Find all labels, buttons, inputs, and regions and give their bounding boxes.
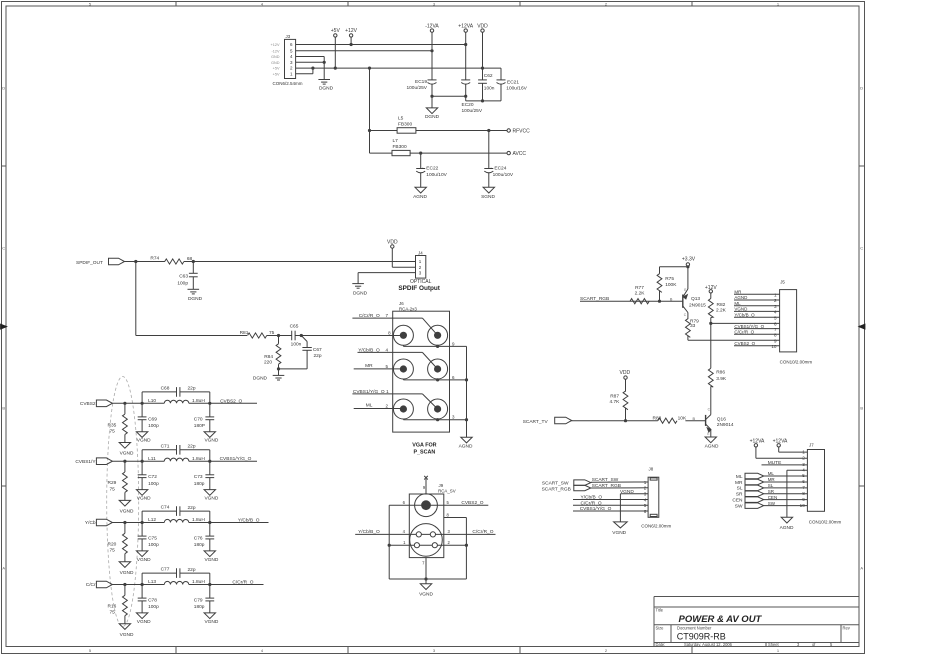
wire R75 bottom	[659, 291, 661, 302]
label J3	[286, 34, 291, 39]
junction	[141, 460, 144, 463]
title block divider size	[670, 625, 672, 643]
svg-text:100u/16V: 100u/16V	[506, 85, 527, 91]
svg-text:R81: R81	[240, 330, 249, 336]
sheet title POWER & AV OUT	[679, 614, 763, 625]
port tag SR	[745, 491, 764, 497]
svg-text:L7: L7	[393, 138, 399, 144]
net label CEN (left)	[732, 497, 743, 503]
power VDD	[620, 370, 631, 379]
wire SPDIF branch down	[135, 262, 137, 336]
svg-text:CVBS1/Y: CVBS1/Y	[75, 459, 96, 465]
wire node to L	[142, 584, 164, 586]
svg-text:R86: R86	[716, 370, 725, 376]
svg-text:C/Cr/R_O: C/Cr/R_O	[472, 529, 493, 535]
svg-text:VGND: VGND	[120, 509, 134, 515]
svg-text:Saturday, August 12, 2006: Saturday, August 12, 2006	[684, 642, 733, 647]
wire SW to J7 pin10	[764, 505, 808, 507]
junction	[141, 521, 144, 524]
grouping ellipse (dashed)	[107, 377, 139, 627]
J8 pin number 2	[644, 486, 647, 491]
border tick top	[519, 2, 521, 7]
connector J7	[807, 450, 824, 512]
svg-text:ML: ML	[768, 471, 775, 476]
svg-text:+12V: +12V	[705, 285, 717, 291]
net label Y/Cb/B_O	[358, 529, 380, 535]
wire +12VA vertical	[465, 32, 467, 80]
svg-text:180p: 180p	[194, 604, 205, 610]
svg-text:100p: 100p	[177, 281, 188, 287]
svg-text:Title: Title	[656, 608, 664, 613]
J9 pin number 5	[447, 500, 450, 505]
svg-text:CVBS1/Y/G_O: CVBS1/Y/G_O	[220, 456, 252, 462]
svg-text:Rev: Rev	[843, 626, 851, 631]
zone label bottom	[777, 648, 780, 653]
wire J4 pin3 to DGND	[358, 273, 415, 284]
net label C/Cr/R_O	[232, 580, 253, 586]
port tag SCART_RGB	[574, 485, 591, 491]
wire EC20 bottom	[465, 84, 467, 101]
inductor L12	[148, 517, 205, 523]
svg-text:2.2K: 2.2K	[716, 308, 727, 314]
wire node to L	[142, 522, 164, 524]
svg-text:CVBS2: CVBS2	[80, 401, 96, 407]
inductor L13	[148, 579, 205, 585]
resistor R84	[264, 344, 281, 366]
J4 pin number 1	[419, 259, 422, 264]
net label MR	[768, 477, 776, 482]
wire ML to J7 pin5	[764, 475, 808, 477]
svg-text:+12V: +12V	[271, 43, 280, 47]
svg-text:R35: R35	[107, 422, 116, 428]
svg-text:VGND: VGND	[204, 619, 218, 625]
net label AGND	[734, 295, 748, 300]
junction	[419, 152, 422, 155]
label P_SCAN	[413, 449, 435, 455]
capacitor EC21	[497, 79, 528, 91]
net label ML	[366, 403, 373, 409]
svg-text:VGND: VGND	[137, 438, 151, 444]
net label CVBS1/Y/G_O	[220, 456, 252, 462]
net label Y/Cb/B_O	[358, 347, 380, 353]
J7 pin number 6	[802, 479, 805, 484]
resistor R29	[107, 472, 127, 492]
net label SPDIF_OUT	[76, 260, 103, 266]
capacitor C78	[138, 598, 159, 611]
wire C down	[141, 523, 143, 551]
wire +5V branch vertical	[369, 68, 371, 153]
capacitor EC22	[416, 165, 447, 178]
junction	[300, 334, 303, 337]
inductor L10	[148, 398, 205, 404]
J3 pin number 4	[290, 54, 293, 59]
svg-text:DGND: DGND	[425, 114, 440, 120]
ground VGND	[204, 551, 219, 563]
svg-text:2N9015: 2N9015	[689, 302, 706, 308]
J3 pin name GND	[271, 61, 280, 65]
net label CVBS1/Y/G_O	[734, 324, 764, 329]
svg-text:C71: C71	[161, 443, 170, 449]
svg-text:22p: 22p	[187, 386, 195, 392]
junction	[709, 322, 712, 325]
svg-text:+12V: +12V	[345, 28, 357, 34]
connector J3	[285, 39, 296, 78]
svg-text:VGND: VGND	[120, 632, 134, 638]
svg-text:SPDIF_OUT: SPDIF_OUT	[76, 260, 103, 266]
svg-text:R29: R29	[107, 480, 116, 486]
net label Y/Cb/B_O	[238, 518, 260, 524]
inductor L11	[148, 456, 205, 462]
ground AGND	[459, 437, 473, 449]
capacitor EC24	[484, 165, 514, 178]
wire L to out	[189, 402, 210, 404]
zone label top	[261, 1, 264, 6]
svg-text:2: 2	[774, 298, 777, 303]
svg-text:AGND: AGND	[734, 295, 748, 300]
wire C63	[192, 262, 194, 290]
ground VGND	[136, 613, 151, 625]
resistor R75	[657, 274, 677, 293]
wire J5 pin 5	[734, 316, 780, 318]
svg-text:EC21: EC21	[507, 79, 519, 85]
J9 pin number 7	[422, 561, 425, 566]
label CON10/2.00mm	[780, 359, 813, 364]
resistor R16	[107, 595, 127, 615]
wire C65 to C67 diagonal	[301, 336, 307, 348]
svg-text:+5V: +5V	[273, 67, 280, 71]
J3 pin name +12V	[271, 43, 280, 47]
label CON6/2.54mm	[273, 81, 303, 86]
power +12V	[345, 28, 357, 37]
border tick top	[691, 2, 693, 7]
svg-text:C68: C68	[161, 386, 170, 392]
port tag CVBS2	[96, 400, 112, 407]
wire J6 shield row bottom	[403, 418, 466, 421]
J6 RCA jack	[428, 359, 448, 379]
wire L to out	[189, 460, 210, 462]
power +3.3V	[682, 257, 696, 266]
label RCA-2x3	[399, 306, 417, 311]
svg-text:EC24: EC24	[494, 165, 506, 171]
wire J5 pin 3	[734, 305, 780, 307]
wire input	[112, 522, 142, 524]
svg-text:Y/Cb/B_O: Y/Cb/B_O	[734, 312, 755, 317]
svg-text:75: 75	[109, 548, 115, 554]
svg-text:SCART_TV: SCART_TV	[523, 419, 549, 425]
capacitor C74	[161, 505, 196, 516]
svg-text:75: 75	[109, 429, 115, 435]
wire R82 bottom	[710, 318, 712, 369]
svg-text:100u/10V: 100u/10V	[426, 172, 447, 178]
junction	[436, 378, 439, 381]
svg-text:R75: R75	[665, 276, 674, 282]
ground DGND	[253, 375, 284, 381]
J7 pin number 8	[802, 491, 805, 496]
svg-text:CVBS2_O: CVBS2_O	[461, 500, 483, 506]
ground VGND	[119, 500, 134, 514]
svg-text:R87: R87	[610, 393, 619, 399]
junction	[430, 95, 433, 98]
ground DGND	[352, 284, 367, 297]
net label Y/Cb/B_O	[734, 312, 755, 317]
svg-text:8: 8	[774, 333, 777, 338]
ground DGND	[425, 108, 440, 120]
port tag SL	[745, 485, 764, 491]
junction	[141, 402, 144, 405]
svg-text:C79: C79	[194, 598, 203, 604]
svg-text:DGND: DGND	[188, 296, 203, 302]
net label SR	[768, 489, 775, 494]
J6 pin number 3	[452, 415, 455, 420]
border marker arrow right	[859, 324, 865, 329]
junction	[436, 345, 439, 348]
wire J3 pin5 -12V rail	[296, 50, 432, 52]
svg-text:R82: R82	[717, 302, 726, 308]
wire MUTE to J7 pin3	[762, 464, 808, 466]
svg-text:J3: J3	[286, 34, 291, 39]
J4 pin number 2	[419, 265, 422, 270]
svg-text:C62: C62	[484, 73, 493, 79]
svg-text:C/Cr/R_O: C/Cr/R_O	[734, 330, 754, 335]
connector J8	[648, 477, 659, 517]
wire output	[210, 402, 257, 404]
ground SGND	[481, 187, 495, 200]
svg-text:GND: GND	[271, 55, 280, 59]
svg-text:J8: J8	[649, 466, 654, 471]
resistor R35	[107, 414, 127, 434]
J3 pin name +5V	[273, 72, 280, 76]
junction	[481, 67, 484, 70]
junction	[208, 460, 211, 463]
port tag C/Cr	[96, 581, 112, 588]
wire J5 pin 2	[734, 299, 780, 301]
svg-text:FB300: FB300	[393, 144, 407, 150]
svg-text:EC19: EC19	[415, 79, 427, 85]
svg-text:100p: 100p	[148, 542, 159, 548]
port RFVCC	[507, 128, 530, 134]
label CON6/2.00mm	[641, 524, 671, 529]
junction	[208, 402, 211, 405]
svg-text:CVBS2_O: CVBS2_O	[220, 398, 242, 404]
J5 pin number 6	[774, 322, 777, 327]
power +12V	[705, 285, 717, 293]
junction	[123, 583, 126, 586]
connector J5	[780, 290, 797, 352]
wire J3 pin2 +5V rail	[296, 67, 501, 69]
junction	[465, 378, 468, 381]
svg-text:-12VA: -12VA	[425, 23, 439, 29]
label J6	[399, 301, 404, 306]
wire SPDIF_OUT	[125, 261, 165, 263]
J6 RCA jack	[428, 399, 448, 419]
resistor R87	[610, 391, 628, 410]
svg-text:VGA FOR: VGA FOR	[412, 443, 436, 449]
net label C/Cr/R_O	[359, 313, 380, 319]
svg-text:100n: 100n	[291, 341, 302, 347]
J5 pin number 5	[774, 315, 777, 320]
svg-text:22p: 22p	[314, 353, 322, 359]
zone label left	[2, 246, 5, 251]
net label MUTE	[768, 460, 782, 466]
power -12VA	[425, 23, 439, 32]
svg-text:POWER & AV OUT: POWER & AV OUT	[679, 614, 763, 625]
net label C/Cr/R_O	[734, 330, 754, 335]
J3 pin name GND	[271, 55, 280, 59]
port tag ML	[745, 473, 764, 479]
J7 pin number 9	[802, 497, 805, 502]
wire J7 pin4 to AGND	[787, 470, 808, 517]
J6 RCA jack	[393, 399, 413, 419]
J8 pin number 1	[644, 480, 647, 485]
svg-text:RFVCC: RFVCC	[513, 128, 531, 134]
svg-text:C65: C65	[290, 324, 299, 330]
power +12VA	[773, 439, 788, 447]
wire J9 bottom ground rail	[389, 578, 466, 580]
svg-text:100u/10V: 100u/10V	[493, 172, 514, 178]
net label VGND	[734, 307, 748, 312]
net label CVBS2_O	[461, 500, 483, 506]
wire J5 pin 10	[734, 345, 780, 347]
svg-text:VGND: VGND	[137, 496, 151, 502]
wire SR to J7 pin8	[764, 493, 808, 495]
junction	[465, 418, 468, 421]
ground VGND	[119, 624, 134, 638]
wire C down	[141, 461, 143, 489]
wire R81 to C65	[267, 335, 292, 337]
capacitor C76	[194, 536, 214, 549]
net label SL	[768, 483, 774, 488]
svg-text:EC22: EC22	[426, 165, 438, 171]
border tick bottom	[175, 647, 177, 654]
label 2N9014	[717, 422, 734, 428]
svg-text:R84: R84	[264, 354, 273, 360]
svg-text:ML: ML	[734, 301, 741, 306]
svg-text:SCART_SW: SCART_SW	[542, 481, 569, 487]
svg-text:CEN: CEN	[732, 497, 743, 503]
resistor R82	[708, 299, 726, 318]
wire C down	[209, 585, 211, 613]
connector J6	[393, 311, 450, 432]
junction	[487, 129, 490, 132]
svg-text:SCART_SW: SCART_SW	[592, 477, 619, 483]
junction	[192, 260, 195, 263]
wire top branch	[142, 392, 210, 403]
capacitor C75	[138, 536, 159, 549]
wire J5 pin 4	[734, 310, 780, 312]
wire output	[210, 584, 264, 586]
label Q16	[717, 416, 726, 422]
svg-text:C76: C76	[194, 536, 203, 542]
net label SCART_SW	[592, 477, 619, 483]
wire SCART_RGB	[580, 300, 649, 302]
capacitor C77	[161, 567, 196, 578]
junction	[465, 544, 468, 547]
wire bottom rail EC20-EC21	[466, 100, 501, 102]
net label CVBS1/Y/G_O	[353, 389, 385, 395]
net label Y/Cb	[85, 520, 96, 526]
net label SR (left)	[736, 492, 743, 498]
svg-text:CVBS1/Y/G_O: CVBS1/Y/G_O	[580, 506, 612, 512]
wire input	[112, 460, 142, 462]
wire SCART_SW to J8 pin1	[591, 481, 648, 483]
svg-text:22p: 22p	[187, 505, 195, 511]
svg-text:4.7K: 4.7K	[610, 399, 621, 405]
resistor R81	[240, 330, 275, 338]
svg-text:R77: R77	[635, 285, 644, 291]
svg-text:AGND: AGND	[705, 444, 719, 450]
zone label right	[860, 406, 863, 411]
ground VGND	[136, 490, 151, 502]
wire R79 to J5 pin9	[688, 336, 780, 341]
net label ML (left)	[736, 474, 743, 480]
resistor R77	[630, 285, 649, 304]
capacitor EC19	[406, 79, 436, 91]
svg-text:180p: 180p	[194, 481, 205, 487]
label Q13	[691, 296, 700, 302]
zone label top	[605, 1, 608, 6]
svg-text:C/Cr/R_O: C/Cr/R_O	[359, 313, 380, 319]
ground VGND	[136, 432, 151, 444]
label B	[670, 297, 673, 301]
svg-text:J7: J7	[809, 443, 814, 448]
wire C down	[141, 403, 143, 431]
resistor R74	[150, 256, 192, 265]
wire SCART_RGB to J8 pin2	[591, 487, 648, 489]
J8 key notch bottom	[650, 514, 657, 516]
wire R84 to DGND	[278, 369, 280, 376]
port tag CVBS1/Y	[96, 458, 112, 465]
svg-text:C: C	[2, 246, 5, 251]
label J5	[780, 279, 785, 284]
svg-text:75: 75	[109, 610, 115, 616]
J7 pin number 3	[802, 462, 805, 467]
resistor R88	[652, 416, 686, 424]
junction	[368, 67, 371, 70]
svg-text:DGND: DGND	[319, 85, 334, 91]
wire +12VA to J7 pin1	[779, 447, 808, 452]
wire node to L	[142, 402, 164, 404]
net label ML	[768, 471, 775, 476]
wire CEN to J7 pin9	[764, 499, 808, 501]
svg-text:DGND: DGND	[253, 375, 268, 381]
net label CVBS1/Y	[75, 459, 96, 465]
wire EC19 to DGND	[431, 96, 433, 108]
svg-text:L5: L5	[398, 115, 404, 121]
net label SW (left)	[735, 503, 743, 509]
wire J9 pin8 stub	[444, 517, 467, 519]
net label VGND	[620, 489, 634, 495]
J7 pin number 5	[802, 473, 805, 478]
J5 pin number 4	[774, 310, 777, 315]
svg-text:1: 1	[774, 292, 777, 297]
J9 svideo pin hole	[432, 543, 437, 548]
resistor R20	[107, 533, 127, 553]
label J4	[418, 251, 423, 256]
ground AGND	[780, 517, 794, 531]
ground VGND	[119, 562, 134, 576]
J5 pin number 7	[774, 327, 777, 332]
port AVCC	[507, 151, 526, 157]
wire -12VA vertical	[431, 32, 433, 80]
junction	[323, 61, 326, 64]
svg-text:VGND: VGND	[734, 307, 748, 312]
svg-text:D: D	[2, 86, 5, 91]
wire pins 1/2 row	[389, 544, 466, 546]
wire J5 pin 7	[734, 328, 780, 330]
J6 pin number 9	[452, 341, 455, 346]
wire R82 junction to J5 pin6	[711, 322, 780, 324]
svg-text:Y/Cb: Y/Cb	[85, 520, 96, 526]
